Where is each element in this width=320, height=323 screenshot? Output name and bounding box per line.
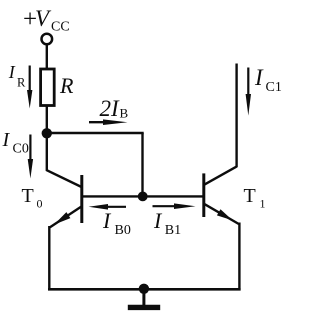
arrow IC1 (246, 68, 251, 116)
label IR (8, 62, 26, 90)
wire T1 emitter down (238, 223, 240, 291)
svg-text:0: 0 (37, 197, 43, 211)
svg-text:C0: C0 (13, 142, 29, 157)
wire node to T0 collector (46, 133, 48, 171)
svg-text:B0: B0 (115, 223, 131, 238)
transistor T0 emitter diagonal (50, 206, 82, 227)
svg-text:I: I (254, 65, 264, 90)
terminal Vcc (42, 34, 53, 45)
svg-text:2I: 2I (100, 96, 121, 121)
transistor T0 collector diagonal (46, 170, 81, 187)
arrow IB0 (89, 204, 127, 210)
ground bar (128, 305, 160, 310)
svg-text:I: I (2, 129, 11, 151)
wire T0 emitter down (48, 226, 50, 290)
arrow IB1 (153, 203, 196, 209)
wire T1 collector up (235, 64, 237, 168)
resistor R (41, 69, 55, 106)
wire resistor to node (46, 106, 48, 134)
wire bottom rail (48, 288, 241, 291)
arrow IC0 (28, 135, 33, 179)
label T0 (22, 185, 43, 211)
svg-text:R: R (59, 73, 74, 98)
junction base node (138, 192, 148, 202)
wire T0 base to T1 base (82, 195, 203, 197)
transistor T0 base bar (80, 175, 83, 223)
svg-text:B: B (120, 106, 129, 121)
wire terminal to resistor (46, 45, 48, 70)
label 2IB (100, 96, 129, 121)
transistor T1 base bar (202, 173, 205, 217)
T0 emitter arrowhead (54, 212, 70, 225)
label IC0 (2, 129, 29, 157)
transistor T1 emitter diagonal (204, 204, 239, 224)
svg-text:T: T (244, 185, 256, 207)
label IC1 (254, 65, 282, 95)
arrow IR (27, 66, 32, 109)
svg-text:R: R (17, 76, 26, 90)
svg-text:I: I (8, 62, 16, 82)
transistor T1 collector diagonal (204, 166, 237, 185)
label T1 (244, 185, 266, 211)
label IB1 (153, 208, 181, 238)
wire node to base branch (horizontal) (47, 132, 144, 134)
wire branch vertical to base (141, 133, 143, 197)
svg-text:T: T (22, 185, 34, 207)
svg-text:CC: CC (51, 20, 70, 35)
T1 emitter arrowhead (217, 209, 233, 220)
label IB0 (102, 208, 131, 238)
svg-text:1: 1 (260, 197, 266, 211)
svg-text:C1: C1 (266, 80, 282, 95)
ground stub (142, 289, 145, 306)
ground node (139, 284, 149, 294)
svg-text:B1: B1 (165, 223, 181, 238)
node A (42, 128, 52, 138)
arrow 2IB (89, 119, 128, 125)
label +Vcc (23, 6, 70, 35)
